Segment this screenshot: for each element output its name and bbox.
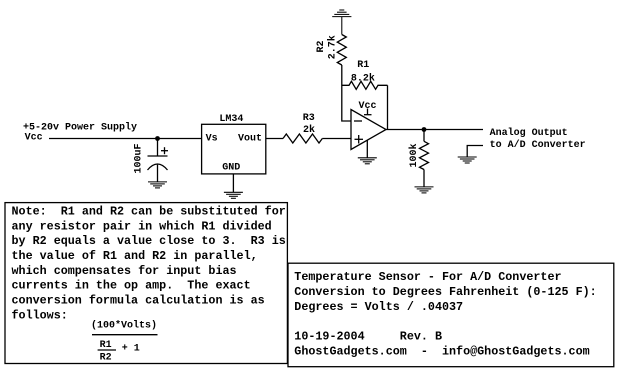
svg-text:100uF: 100uF xyxy=(134,143,145,173)
wire A/D ground stub xyxy=(467,146,483,158)
ground (100k) xyxy=(415,187,434,193)
svg-text:+5-20v Power Supply: +5-20v Power Supply xyxy=(23,121,137,133)
resistor R4 100k (vertical load) xyxy=(420,130,429,187)
svg-text:conversion formula calculation: conversion formula calculation is as xyxy=(12,294,265,308)
svg-text:+ 1: + 1 xyxy=(122,343,140,354)
wire LM34 GND pin xyxy=(232,174,234,192)
wire op-amp output to analog out xyxy=(386,129,483,131)
svg-text:R1: R1 xyxy=(100,340,112,351)
node output junction xyxy=(422,127,427,132)
svg-text:follows:: follows: xyxy=(12,308,68,322)
ground (op-amp) xyxy=(358,158,377,164)
svg-text:GhostGadgets.com - info@Ghos: GhostGadgets.com - info@GhostGadgets.com xyxy=(294,345,589,359)
ground (capacitor) xyxy=(148,182,167,188)
title block text xyxy=(294,270,596,358)
svg-text:to A/D Converter: to A/D Converter xyxy=(490,139,586,151)
ground (A/D reference) xyxy=(458,157,477,163)
note box xyxy=(5,203,287,364)
svg-text:Vcc: Vcc xyxy=(25,133,43,144)
svg-text:2.7k: 2.7k xyxy=(326,35,338,59)
svg-text:GND: GND xyxy=(222,162,240,173)
capacitor C1 100uF (polarized) xyxy=(148,139,169,182)
resistor R2 (vertical) xyxy=(337,35,346,66)
svg-text:100k: 100k xyxy=(408,143,420,167)
svg-text:Temperature Sensor - For A/D C: Temperature Sensor - For A/D Converter xyxy=(294,270,561,284)
svg-text:R1: R1 xyxy=(357,60,369,71)
node junction at capacitor tap xyxy=(155,136,160,141)
wire LM34 Vout to R3 xyxy=(266,138,283,140)
svg-text:R3: R3 xyxy=(303,113,315,124)
wire Vcc supply rail to LM34 Vs xyxy=(49,138,202,140)
svg-text:R2: R2 xyxy=(316,40,327,52)
svg-text:(100*Volts): (100*Volts) xyxy=(91,320,157,332)
formula (100*Volts) over R1/R2 + 1 xyxy=(91,320,158,364)
svg-text:LM34: LM34 xyxy=(219,114,243,125)
title block box xyxy=(288,263,614,367)
resistor R1 (feedback) xyxy=(342,81,388,89)
ground (LM34) xyxy=(224,192,243,198)
resistor R3 xyxy=(283,134,322,143)
svg-text:any resistor pair in which R1: any resistor pair in which R1 divided xyxy=(12,219,272,233)
svg-text:Conversion to Degrees Fahrenhe: Conversion to Degrees Fahrenheit (0-125 … xyxy=(294,285,596,299)
svg-text:currents in the op amp. The e: currents in the op amp. The exact xyxy=(12,279,251,293)
power rail symbol (top, +V) xyxy=(332,10,351,35)
svg-text:the value of R1 and R2 in para: the value of R1 and R2 in parallel, xyxy=(12,249,258,263)
svg-text:10-19-2004 Rev. B: 10-19-2004 Rev. B xyxy=(294,330,442,344)
wire op-amp ground pin xyxy=(366,140,368,158)
svg-text:which compensates for input bi: which compensates for input bias xyxy=(12,264,237,278)
svg-text:by R2 equals a value close to: by R2 equals a value close to 3. R3 is xyxy=(12,234,286,248)
svg-text:2k: 2k xyxy=(303,124,315,136)
op-amp U2 xyxy=(351,110,386,150)
svg-text:Vs: Vs xyxy=(206,134,218,145)
IC U1 LM34 body xyxy=(202,124,266,174)
wire R2 to inverting input xyxy=(342,65,351,121)
svg-text:8.2k: 8.2k xyxy=(351,72,375,84)
note text xyxy=(12,205,286,323)
svg-text:Degrees = Volts / .04037: Degrees = Volts / .04037 xyxy=(294,300,463,314)
svg-text:Note: R1 and R2 can be substi: Note: R1 and R2 can be substituted for xyxy=(12,205,286,219)
wire R3 to op-amp non-inverting input xyxy=(322,138,351,140)
wire op-amp Vcc pin xyxy=(364,109,372,115)
svg-text:Analog Output: Analog Output xyxy=(490,127,568,139)
svg-text:R2: R2 xyxy=(100,352,112,363)
wire R1 feedback down to output node xyxy=(387,85,389,129)
svg-text:Vout: Vout xyxy=(238,134,262,145)
